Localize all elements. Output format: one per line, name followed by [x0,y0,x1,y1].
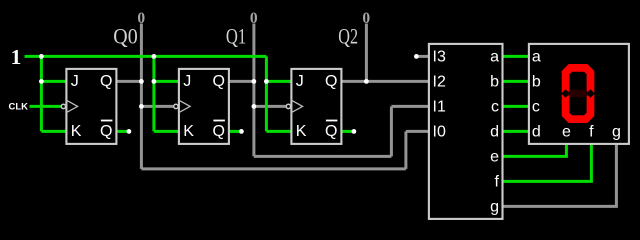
U3 body [291,69,341,144]
wire decoder output a [503,55,529,58]
U1 body [66,69,116,144]
svg-text:I0: I0 [433,124,446,141]
wire U2 notQ stub [229,130,240,133]
wire decoder output d [503,130,529,133]
U1 inverted clock bubble [61,104,65,108]
wire Q0 net: Q output stub of U1 [116,80,141,83]
U2 inverted clock bubble [174,104,178,108]
wire decoder output b [503,80,529,83]
open end dot U3 notQ [352,129,357,134]
wire U1 notQ stub [116,130,127,133]
svg-text:c: c [532,99,540,116]
svg-text:I3: I3 [433,49,446,66]
wire U2 K branch [154,130,179,133]
svg-text:d: d [490,124,499,141]
svg-text:I1: I1 [433,99,446,116]
U3 notQ overline [326,120,338,122]
U1 clock edge triangle [66,100,77,112]
svg-text:g: g [490,199,499,216]
wire decoder output f [503,144,592,182]
junction dot U3 J branch [264,79,269,84]
wire Q0 net: branch to U2 clock [141,105,173,108]
svg-text:J: J [71,73,79,90]
wire Q1 net: branch to U3 clock [254,105,286,108]
wire Q0 net: probe/routing vertical [140,24,143,169]
wire constant-1 rail [25,55,267,58]
svg-text:Q: Q [100,73,112,90]
svg-text:J: J [183,73,191,90]
U2 body [179,69,229,144]
svg-text:e: e [562,124,571,141]
svg-text:b: b [490,74,499,91]
U3 clock edge triangle [291,100,302,112]
open end dot U2 notQ [239,129,244,134]
wire I3 stub (unconnected input) [416,55,429,58]
svg-text:Q1: Q1 [226,24,246,49]
wire U3 J/K rail [265,56,268,131]
JK flip-flop U2 [174,69,229,144]
svg-text:Q: Q [325,123,337,140]
svg-text:b: b [532,74,541,91]
svg-text:0: 0 [137,10,145,27]
wire U2 J/K rail [152,56,155,131]
wire Q1 net: into decoder I1 [391,105,429,108]
wire U1 J branch [41,80,66,83]
U1 notQ overline [101,120,113,122]
wire Q2 net: U3 Q output to decoder I2 [341,80,429,83]
wire Q0 net: into decoder I0 [406,130,429,133]
seven segment digit 0 (segments a b c d e f lit) [562,64,595,123]
wire U3 K branch [266,130,291,133]
junction dot constant rail / U2 rail [152,54,157,59]
wire Q1 net: Q output stub of U2 [229,80,254,83]
svg-text:e: e [490,149,499,166]
svg-text:K: K [71,123,82,140]
wire U3 J branch [266,80,291,83]
wire Q1 net: probe/routing vertical [252,24,255,157]
wire Q2 net: probe vertical [365,24,368,82]
junction dot constant rail / U1 rail [39,54,44,59]
svg-text:Q: Q [100,123,112,140]
open end dot I3 stub [414,54,419,59]
svg-text:Q0: Q0 [113,24,137,49]
svg-text:Q2: Q2 [338,24,358,49]
U3 inverted clock bubble [286,104,290,108]
seven segment display U5 [529,44,629,144]
svg-text:f: f [589,124,594,141]
segment pinch notch left [561,89,570,98]
svg-text:J: J [296,73,304,90]
wire decoder output c [503,105,529,108]
svg-text:Q: Q [325,73,337,90]
U2 clock edge triangle [179,100,190,112]
wire U2 J branch [154,80,179,83]
wire decoder output g to display [503,144,617,207]
svg-text:a: a [532,49,541,66]
junction dot Q0 at U1 Q [139,79,144,84]
wire U3 notQ stub [341,130,352,133]
svg-text:0: 0 [362,10,370,27]
wire U1 K branch [41,130,66,133]
junction dot Q1 at U2 Q [252,79,257,84]
svg-text:K: K [183,123,194,140]
svg-text:0: 0 [250,10,258,27]
wire Q0 net: bottom routing run [141,167,406,170]
junction dot Q0 clock branch [139,104,144,109]
seven segment decoder U4 [429,44,503,219]
svg-text:f: f [495,174,500,191]
segment g off (dark) [567,90,590,98]
svg-text:a: a [490,49,499,66]
svg-text:CLK: CLK [8,102,28,113]
svg-text:Q: Q [212,123,224,140]
JK flip-flop U1 [61,69,116,144]
segment pinch notch right [586,89,595,98]
wire Q1 net: bottom routing run [254,155,392,158]
wire Q1 net: riser to I1 [390,106,393,156]
wire CLK to U1 clock [30,105,61,108]
svg-text:I2: I2 [433,74,446,91]
svg-text:c: c [491,99,499,116]
junction dot Q2 probe [364,79,369,84]
junction dot U1 J branch [39,79,44,84]
wire U1 J/K rail [40,56,43,131]
svg-text:1: 1 [11,45,22,69]
svg-text:Q: Q [212,73,224,90]
svg-text:g: g [612,124,621,141]
junction dot U2 J branch [152,79,157,84]
svg-text:K: K [296,123,307,140]
wire Q0 net: riser to I0 [404,131,407,169]
wire decoder output e [503,144,567,157]
junction dot Q1 clock branch [252,104,257,109]
open end dot U1 notQ [126,129,131,134]
svg-text:d: d [532,124,541,141]
U2 notQ overline [213,120,225,122]
JK flip-flop U3 [286,69,341,144]
